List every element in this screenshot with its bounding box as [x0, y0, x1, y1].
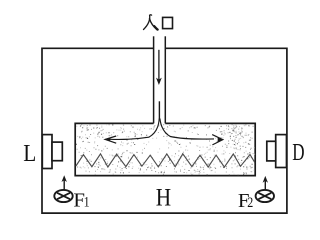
- svg-text:1: 1: [84, 194, 90, 210]
- heater chamber box (stippled): [75, 123, 255, 175]
- louver D inner block: [267, 141, 276, 161]
- left airflow arrow: [104, 119, 159, 144]
- louver L inner block: [52, 142, 62, 161]
- svg-text:2: 2: [247, 195, 253, 211]
- label 入口 (inlet): [144, 15, 173, 30]
- right airflow arrow: [160, 119, 224, 145]
- fan F1 arrow: [62, 175, 67, 190]
- svg-text:D: D: [292, 140, 304, 166]
- inlet tube right wall: [164, 36, 166, 123]
- airflow arrow in tube: [156, 50, 162, 85]
- outer case (open at tube): [42, 48, 287, 213]
- svg-text:L: L: [23, 141, 36, 167]
- heating element (zigzag): [76, 154, 255, 167]
- airflow stem entering chamber: [158, 101, 160, 119]
- fan F1 symbol: [54, 190, 72, 202]
- stipple texture: [76, 125, 255, 175]
- fan F2 symbol: [256, 190, 274, 202]
- fan F2 arrow: [263, 176, 268, 190]
- inlet tube left wall: [153, 36, 155, 123]
- louver D outer block: [276, 135, 287, 168]
- svg-text:H: H: [156, 185, 171, 212]
- louver L outer block: [42, 135, 52, 169]
